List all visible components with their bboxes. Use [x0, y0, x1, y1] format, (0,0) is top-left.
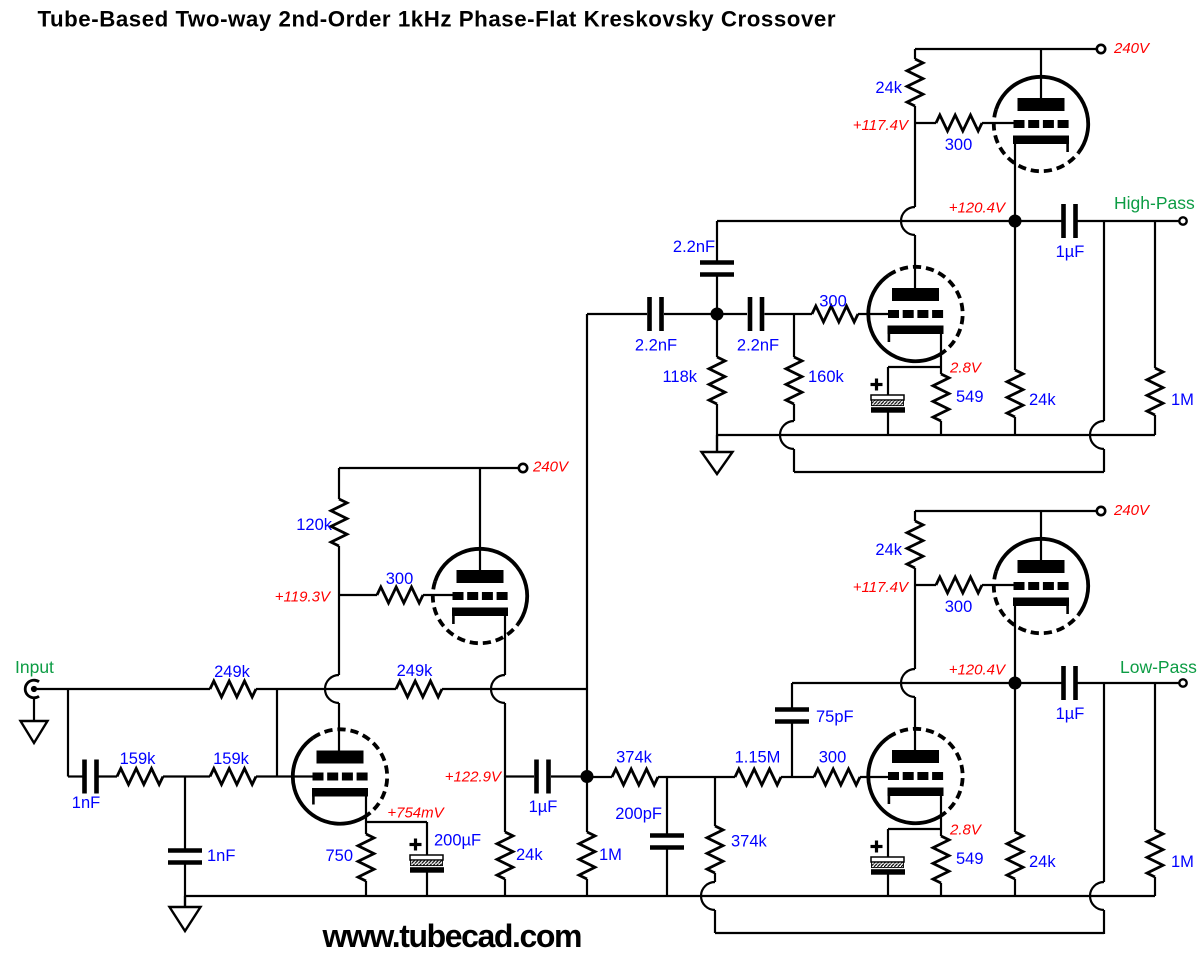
svg-text:200pF: 200pF [615, 805, 662, 823]
svg-text:750: 750 [325, 847, 353, 865]
svg-text:249k: 249k [397, 662, 434, 680]
svg-text:1nF: 1nF [72, 794, 100, 812]
svg-text:75pF: 75pF [816, 708, 854, 726]
svg-text:300: 300 [945, 598, 973, 616]
svg-text:159k: 159k [213, 750, 250, 768]
svg-text:1M: 1M [1171, 853, 1194, 871]
svg-text:2.2nF: 2.2nF [673, 238, 715, 256]
svg-text:549: 549 [956, 850, 984, 868]
svg-text:240V: 240V [1113, 40, 1151, 57]
svg-text:2.2nF: 2.2nF [635, 337, 677, 355]
svg-text:+119.3V: +119.3V [275, 589, 332, 606]
svg-text:+754mV: +754mV [387, 805, 445, 822]
svg-text:300: 300 [819, 749, 847, 767]
svg-text:1µF: 1µF [1056, 705, 1085, 723]
svg-text:Input: Input [15, 657, 54, 677]
svg-text:2.8V: 2.8V [949, 822, 983, 839]
svg-text:1M: 1M [1171, 391, 1194, 409]
svg-text:374k: 374k [731, 833, 768, 851]
svg-text:24k: 24k [875, 79, 902, 97]
svg-text:300: 300 [386, 570, 414, 588]
svg-text:2.8V: 2.8V [949, 360, 983, 377]
svg-text:240V: 240V [532, 459, 570, 476]
svg-text:High-Pass: High-Pass [1114, 193, 1195, 213]
svg-text:24k: 24k [1029, 853, 1056, 871]
svg-text:1.15M: 1.15M [735, 749, 781, 767]
svg-text:374k: 374k [616, 749, 653, 767]
svg-text:+117.4V: +117.4V [853, 579, 910, 596]
svg-text:118k: 118k [662, 368, 697, 386]
svg-text:www.tubecad.com: www.tubecad.com [322, 918, 583, 954]
svg-text:1M: 1M [599, 846, 622, 864]
svg-text:1µF: 1µF [1056, 243, 1085, 261]
svg-text:240V: 240V [1113, 502, 1151, 519]
svg-text:300: 300 [945, 136, 973, 154]
svg-text:24k: 24k [875, 541, 902, 559]
svg-text:159k: 159k [120, 750, 157, 768]
svg-text:120k: 120k [296, 516, 333, 534]
svg-text:Tube-Based Two-way 2nd-Order 1: Tube-Based Two-way 2nd-Order 1kHz Phase-… [38, 6, 836, 31]
svg-text:200µF: 200µF [434, 832, 481, 850]
svg-text:2.2nF: 2.2nF [737, 337, 779, 355]
svg-text:1nF: 1nF [207, 847, 235, 865]
svg-text:+120.4V: +120.4V [949, 662, 1007, 679]
svg-text:24k: 24k [1029, 391, 1056, 409]
svg-text:549: 549 [956, 388, 984, 406]
svg-text:+117.4V: +117.4V [853, 117, 910, 134]
svg-text:+122.9V: +122.9V [445, 769, 503, 786]
svg-text:24k: 24k [516, 846, 543, 864]
svg-text:249k: 249k [214, 663, 251, 681]
svg-text:Low-Pass: Low-Pass [1120, 657, 1197, 677]
svg-text:300: 300 [819, 293, 847, 311]
svg-text:160k: 160k [808, 368, 845, 386]
svg-text:+120.4V: +120.4V [949, 200, 1007, 217]
svg-text:1µF: 1µF [529, 798, 558, 816]
